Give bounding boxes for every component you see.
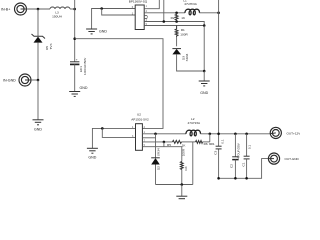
wire — [155, 165, 157, 185]
capacitor C3 — [213, 139, 224, 155]
resistor R4 — [180, 148, 187, 170]
resistor R6 — [196, 141, 215, 146]
svg-text:9R1: 9R1 — [209, 142, 215, 146]
connector IN-GND — [3, 74, 31, 86]
TVS diode D5 — [32, 34, 54, 50]
junction — [73, 37, 76, 40]
resistor R2 — [171, 13, 186, 22]
svg-text:R1: R1 — [181, 28, 185, 32]
wire — [70, 8, 75, 10]
svg-text:47UH/3A: 47UH/3A — [188, 121, 201, 125]
svg-text:+: + — [76, 57, 78, 61]
wire — [177, 54, 205, 71]
inductor L2 — [186, 117, 201, 136]
capacitor C1 — [241, 134, 251, 179]
svg-text:C3: C3 — [213, 151, 217, 155]
capacitor EC1 — [70, 57, 87, 75]
wire U1 gnd net — [92, 9, 136, 29]
svg-text:C1: C1 — [241, 162, 245, 166]
wire gnd rail — [156, 184, 193, 186]
connector OUT-GND — [268, 153, 299, 164]
wire pin stub — [144, 18, 147, 20]
wire +12V rail — [218, 0, 220, 146]
wire out gnd rail — [219, 159, 269, 179]
wire — [37, 43, 39, 80]
svg-text:BP1360V-SQ: BP1360V-SQ — [129, 0, 148, 3]
junction — [175, 20, 178, 23]
wire — [31, 79, 38, 81]
ground — [33, 120, 44, 132]
svg-text:100R: 100R — [182, 148, 186, 156]
wire U2 gnd net — [92, 128, 135, 148]
wire — [102, 128, 135, 137]
ground — [176, 185, 187, 202]
svg-text:0.1: 0.1 — [247, 145, 251, 150]
svg-text:C2: C2 — [229, 164, 233, 168]
svg-text:GND: GND — [88, 155, 96, 159]
svg-text:AP1501-5V2: AP1501-5V2 — [131, 118, 149, 122]
diode D3 — [172, 49, 189, 62]
node junction — [37, 8, 40, 11]
junction — [245, 133, 248, 136]
wire +12V out — [200, 133, 270, 135]
junction — [203, 70, 206, 73]
wire fb row — [142, 141, 172, 143]
wire pin1 riser — [144, 0, 159, 9]
junction — [163, 141, 166, 144]
junction — [154, 133, 157, 136]
svg-text:1000UF/50V: 1000UF/50V — [83, 57, 87, 75]
wire drop — [163, 142, 165, 147]
op IC U2 — [131, 113, 149, 151]
wire vertical — [203, 26, 205, 72]
inductor L1 — [183, 0, 199, 15]
ground — [69, 86, 88, 96]
wire — [176, 37, 178, 46]
svg-text:U2: U2 — [137, 113, 141, 117]
junction — [245, 177, 248, 180]
wire pin row3 stub — [142, 137, 155, 139]
wire row3 — [144, 25, 204, 27]
connector IN-B+ — [1, 3, 27, 15]
wire — [102, 9, 136, 16]
inductor L3 — [50, 7, 70, 19]
wire pin stub — [144, 15, 147, 17]
svg-text:R2: R2 — [171, 16, 175, 20]
svg-text:R6: R6 — [204, 142, 208, 146]
junction — [181, 183, 184, 186]
junction — [234, 133, 237, 136]
resistor R5 — [167, 140, 186, 147]
svg-text:SR34: SR34 — [156, 148, 160, 156]
junction — [101, 127, 104, 130]
svg-text:OUT-GND: OUT-GND — [285, 157, 300, 161]
svg-text:GND: GND — [34, 128, 42, 132]
svg-text:IN-B+: IN-B+ — [1, 7, 10, 11]
svg-text:150UH: 150UH — [52, 15, 62, 19]
wire U2 out row — [142, 133, 186, 135]
wire fb riser — [209, 134, 211, 142]
wire — [27, 8, 51, 10]
resistor R1 — [175, 26, 188, 38]
wire — [181, 170, 183, 185]
svg-text:GND: GND — [200, 91, 208, 95]
wire — [37, 9, 39, 36]
svg-text:GND: GND — [80, 86, 88, 90]
svg-text:47UH/3A: 47UH/3A — [184, 2, 197, 6]
diode D2 — [151, 134, 160, 170]
wire to L1 — [144, 12, 185, 14]
svg-text:D2: D2 — [156, 166, 160, 170]
wire rail — [74, 0, 76, 62]
svg-text:R4: R4 — [184, 166, 188, 170]
wire vertical net — [163, 0, 165, 22]
junction — [234, 177, 237, 180]
ground — [86, 29, 107, 34]
junction — [100, 7, 103, 10]
svg-text:GND: GND — [99, 29, 107, 33]
wire — [37, 80, 39, 120]
capacitor C2 — [229, 134, 240, 179]
junction — [217, 12, 220, 15]
svg-text:100R: 100R — [180, 33, 188, 37]
svg-text:SR34: SR34 — [185, 53, 189, 61]
svg-text:0.1: 0.1 — [221, 139, 225, 144]
junction node A — [73, 8, 76, 11]
junction — [217, 133, 220, 136]
junction — [175, 12, 178, 15]
junction — [203, 24, 206, 27]
wire — [75, 39, 163, 129]
junction — [163, 20, 166, 23]
svg-text:IN-GND: IN-GND — [3, 78, 16, 82]
svg-text:470UF/25V: 470UF/25V — [236, 142, 240, 159]
op IC U1 — [129, 0, 149, 30]
ground — [87, 148, 98, 159]
connector OUT+12V — [270, 127, 301, 138]
junction — [209, 133, 212, 136]
ground — [199, 71, 210, 95]
wire row C — [142, 147, 181, 162]
svg-text:OUT+12V: OUT+12V — [287, 131, 301, 135]
wire riser to ground rail — [192, 142, 194, 185]
wire — [74, 64, 76, 91]
junction — [217, 177, 220, 180]
junction — [37, 79, 40, 82]
svg-text:TVS: TVS — [49, 43, 53, 49]
wire — [199, 12, 218, 14]
wire row2 — [144, 22, 204, 26]
